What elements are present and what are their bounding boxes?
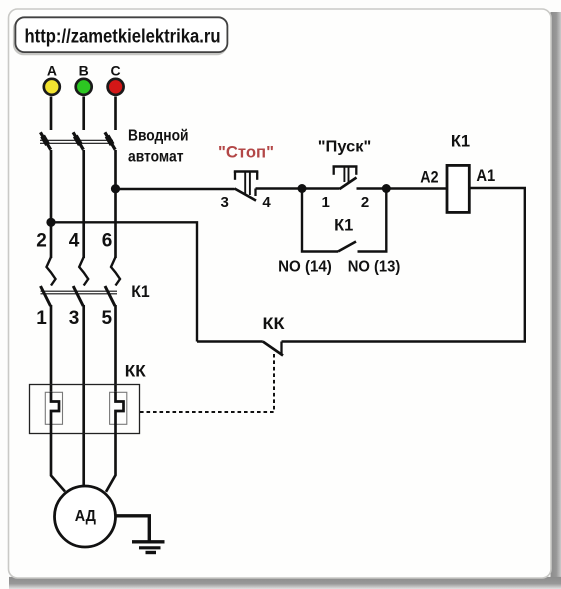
svg-text:NO (14): NO (14): [278, 259, 332, 276]
svg-text:Вводной: Вводной: [128, 128, 189, 145]
wire phase B contactor to thermal relay: [82, 305, 85, 434]
node N2: [382, 184, 391, 193]
wire phase A lamp stem: [50, 97, 53, 131]
svg-text:A2: A2: [420, 168, 438, 186]
wire N2 to coil: [386, 187, 447, 189]
start button SB2 (NO): [302, 167, 386, 190]
contactor K1 main contact pole 2: [73, 257, 88, 306]
thermal relay heater element phase A: [45, 392, 62, 425]
svg-text:"Пуск": "Пуск": [318, 139, 372, 156]
svg-text:АД: АД: [75, 508, 96, 525]
contactor K1 main contact pole 3: [105, 257, 120, 306]
stop button SB1 (NC): [234, 172, 258, 201]
node N1: [298, 184, 307, 193]
thermal relay heater element phase C: [110, 392, 127, 425]
wire left return rail: [51, 222, 197, 341]
motor АД: [55, 486, 116, 547]
thermal relay KK box: [30, 385, 140, 434]
breaker linkage bar: [40, 140, 113, 143]
svg-text:1: 1: [36, 308, 47, 329]
svg-text:2: 2: [361, 194, 369, 211]
label Вводной автомат: [128, 128, 189, 166]
wire stop to node N1: [256, 187, 303, 189]
svg-text:КК: КК: [125, 361, 147, 380]
wire phase C node to stop button: [116, 188, 235, 190]
wire phase B lamp stem: [82, 97, 85, 131]
svg-text:автомат: автомат: [128, 148, 184, 165]
svg-text:6: 6: [102, 231, 113, 252]
wire phase B thermal relay to motor: [82, 434, 85, 487]
svg-text:КК: КК: [263, 314, 286, 333]
wire coil to right rail: [282, 188, 525, 342]
svg-text:http://zametkielektrika.ru: http://zametkielektrika.ru: [25, 27, 221, 48]
node on phase C to control circuit: [111, 184, 120, 193]
svg-text:3: 3: [221, 194, 229, 211]
aux contact K1 (NO holding): [302, 189, 386, 252]
wire phase B breaker to contactor: [82, 150, 85, 258]
wire phase A breaker to contactor: [50, 150, 53, 258]
svg-text:А: А: [47, 62, 57, 78]
svg-text:К1: К1: [131, 282, 150, 301]
svg-text:3: 3: [69, 308, 80, 329]
svg-text:5: 5: [102, 308, 113, 329]
breaker QF pole 1: [40, 132, 50, 149]
wire phase C contactor to thermal relay: [114, 305, 117, 393]
node on phase A to control circuit: [46, 218, 55, 227]
wire phase C breaker to contactor: [114, 150, 117, 258]
svg-text:"Стоп": "Стоп": [218, 144, 274, 162]
svg-text:К1: К1: [334, 216, 353, 235]
svg-text:4: 4: [262, 194, 271, 211]
svg-text:К1: К1: [451, 131, 470, 150]
svg-text:4: 4: [69, 231, 80, 252]
ground: [132, 542, 165, 553]
svg-text:2: 2: [36, 231, 47, 252]
lamp C (phase C indicator, red): [108, 79, 124, 95]
wire phase C thermal relay to motor: [106, 424, 116, 492]
thermal contact KK (NC): [197, 342, 283, 356]
wire phase C lamp stem: [114, 97, 117, 131]
dotted mechanical link thermal to contact: [140, 354, 274, 412]
contactor K1 main contact pole 1: [41, 257, 56, 306]
wire phase A thermal relay to motor: [51, 424, 65, 492]
breaker QF pole 2: [73, 132, 83, 149]
lamp A (phase A indicator, yellow): [44, 79, 60, 95]
wire motor to ground: [116, 516, 150, 541]
contactor linkage bar: [41, 291, 118, 294]
wire phase A contactor to thermal relay: [50, 305, 53, 393]
coil K1: [447, 165, 469, 212]
svg-text:A1: A1: [476, 167, 495, 185]
breaker QF pole 3: [105, 132, 115, 149]
lamp B (phase B indicator, green): [76, 79, 92, 95]
svg-text:1: 1: [322, 194, 330, 211]
svg-text:С: С: [111, 62, 121, 78]
url watermark box: [14, 17, 227, 54]
svg-text:NO (13): NO (13): [348, 259, 401, 276]
svg-text:В: В: [79, 62, 89, 78]
